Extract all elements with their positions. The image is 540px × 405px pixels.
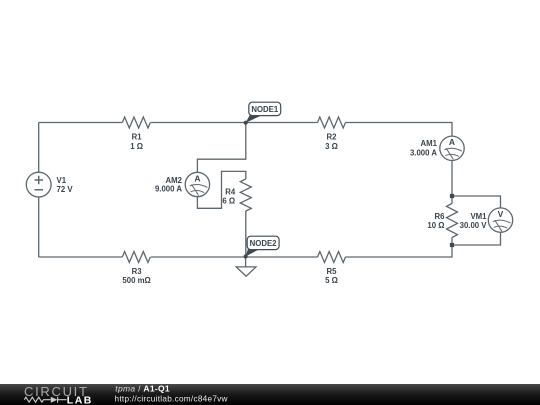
svg-text:10 Ω: 10 Ω [427,221,444,230]
svg-text:LAB: LAB [67,394,93,405]
svg-text:A: A [194,173,200,183]
svg-text:AM2: AM2 [166,176,183,185]
svg-text:30.00 V: 30.00 V [460,221,488,230]
svg-text:AM1: AM1 [421,139,438,148]
svg-text:9.000 A: 9.000 A [155,185,182,194]
svg-text:72 V: 72 V [57,185,74,194]
svg-text:R3: R3 [132,267,143,276]
svg-text:NODE2: NODE2 [250,239,278,248]
svg-text:R6: R6 [435,212,446,221]
svg-text:NODE1: NODE1 [251,105,279,114]
svg-text:3.000 A: 3.000 A [410,149,437,158]
svg-text:A: A [449,137,455,147]
svg-text:V1: V1 [57,176,67,185]
svg-text:R1: R1 [132,133,143,142]
svg-text:R2: R2 [327,133,338,142]
svg-text:6 Ω: 6 Ω [222,197,235,206]
svg-text:500 mΩ: 500 mΩ [122,276,150,285]
svg-text:VM1: VM1 [470,212,487,221]
svg-text:tpma / A1-Q1: tpma / A1-Q1 [115,383,170,393]
svg-text:R4: R4 [225,188,236,197]
svg-text:R5: R5 [327,267,338,276]
svg-text:http://circuitlab.com/c84e7vw: http://circuitlab.com/c84e7vw [115,394,228,403]
svg-text:V: V [498,209,504,219]
svg-text:1 Ω: 1 Ω [130,142,143,151]
svg-text:5 Ω: 5 Ω [325,276,338,285]
svg-text:3 Ω: 3 Ω [325,142,338,151]
